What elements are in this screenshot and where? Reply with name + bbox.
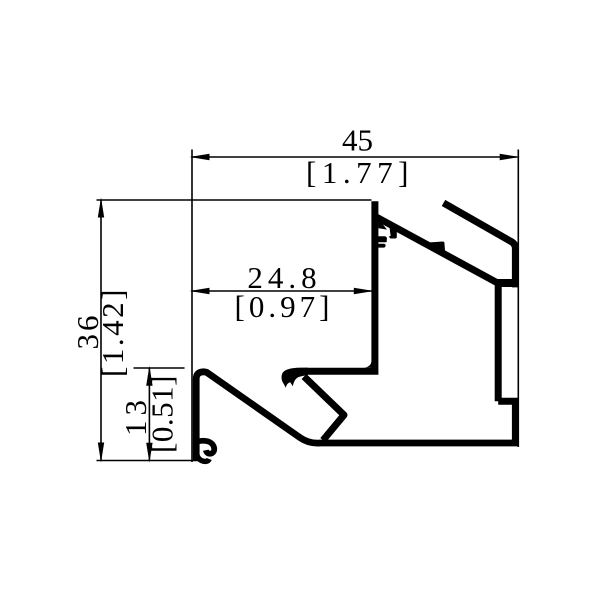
profile: screw-port wall tooth: [378, 236, 387, 242]
svg-text:[1.42]: [1.42]: [95, 287, 130, 377]
profile: right horizontal arm at top of recess: [496, 279, 518, 287]
extension line right x=518.3: [517, 150, 519, 448]
svg-text:[0.51]: [0.51]: [145, 375, 180, 453]
extension line left x=192: [191, 150, 193, 463]
profile: main vertical wall and middle arm: [305, 201, 375, 371]
profile: screw-port fillet at wall-diagonal junction: [378, 221, 387, 230]
svg-text:[0.97]: [0.97]: [235, 289, 334, 324]
profile: V strut under middle arm: [304, 377, 344, 441]
profile: main long diagonal and inner recess wall: [375, 216, 498, 401]
profile: bottom-left c-hook lower cup: [196, 450, 209, 461]
profile: upper right diagonal flange with corner into right wall: [444, 203, 516, 288]
extension line top of 13 dim y=368: [134, 367, 185, 369]
arrow bottom of 36 dim: [98, 443, 104, 463]
profile: bottom-left tip, diagonal and bottom horizontal wall: [196, 372, 519, 461]
extension line bottom y=460.5: [97, 460, 206, 462]
profile: barb fin on main diagonal: [430, 242, 445, 251]
dimension line 36: [100, 200, 102, 460]
arrow top of 13 dim: [146, 366, 152, 386]
arrow left of 45 dim: [190, 154, 210, 160]
arrow right of 45 dim: [500, 154, 520, 160]
profile: recess bottom step and lower right wall: [498, 401, 515, 444]
dimension line 13: [148, 368, 150, 461]
profile: beak hook at left end of middle arm: [282, 368, 308, 388]
profile: screw-port hanging tooth under diagonal: [389, 227, 397, 239]
svg-text:[1.77]: [1.77]: [306, 155, 414, 190]
arrow bottom of 13 dim: [146, 443, 152, 463]
dimension line 24.8: [192, 290, 372, 292]
arrow top of 36 dim: [98, 198, 104, 218]
profile: bottom-left c-hook: [198, 441, 215, 454]
profile: screw-port wall lower bump: [378, 244, 386, 248]
dimension line 45: [192, 156, 517, 158]
arrow right of 24.8 dim: [354, 288, 374, 294]
arrow left of 24.8 dim: [190, 288, 210, 294]
extension line top of 36 dim y=200: [97, 199, 372, 201]
profile: inner fillet at wall-arm corner: [365, 362, 372, 368]
svg-text:45: 45: [342, 123, 373, 158]
